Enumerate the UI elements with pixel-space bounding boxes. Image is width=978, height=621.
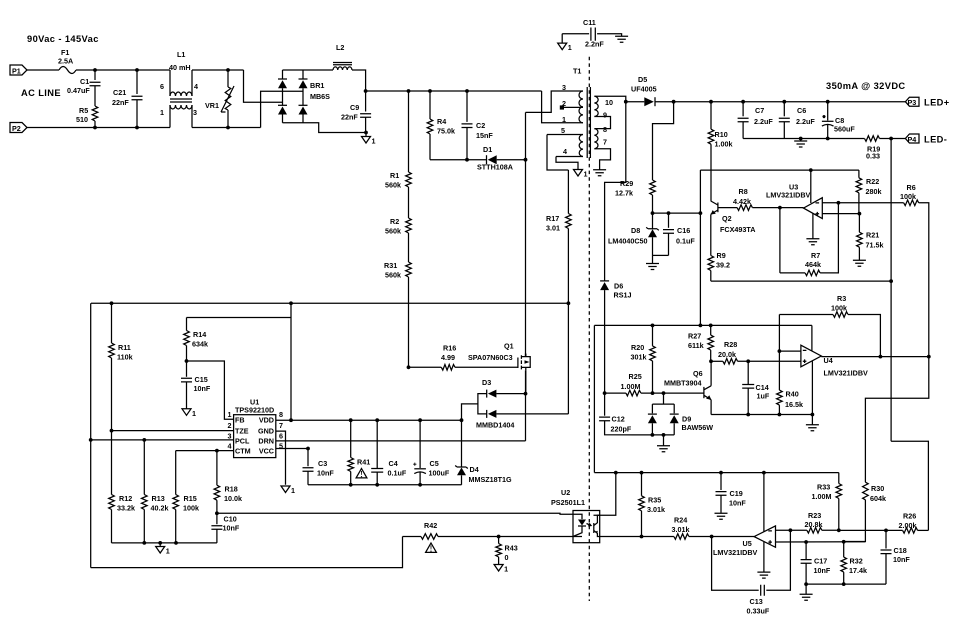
wire U4 vplus from rail: [811, 325, 813, 350]
warning triangle at R41: [356, 469, 367, 478]
resistor R11: [110, 301, 114, 305]
svg-text:22nF: 22nF: [341, 113, 358, 122]
resistor R33 zigzag: [836, 484, 842, 499]
wire pin5 loop to R17: [547, 135, 568, 171]
wire U5 gnd stub: [763, 542, 765, 572]
svg-text:C2: C2: [476, 121, 485, 130]
resistor R13: [142, 438, 146, 442]
capacitor C4: [375, 418, 379, 422]
svg-text:10nF: 10nF: [223, 524, 240, 533]
wire vcc rail lower: [594, 472, 838, 474]
diode BR1 top-left: [278, 78, 287, 80]
connector P4: [905, 134, 919, 143]
wire drain riser upper: [525, 112, 527, 159]
wire snubber bottom: [430, 159, 487, 161]
svg-text:464k: 464k: [805, 260, 821, 269]
svg-text:R23: R23: [808, 511, 821, 520]
capacitor C5 electrolytic: [418, 418, 422, 422]
wire vcc rail riser: [593, 325, 595, 472]
wire to R19: [828, 138, 865, 140]
wire U4 gnd stub: [811, 361, 813, 414]
wire L1 pin1 lead: [169, 105, 171, 128]
wire D3 bracket: [478, 394, 487, 414]
wire to C6: [783, 102, 785, 117]
resistor R14 zigzag: [184, 331, 190, 346]
svg-text:D1: D1: [483, 145, 492, 154]
wire opto emitter to R24: [600, 536, 674, 538]
svg-text:4: 4: [194, 82, 198, 91]
wire to C10: [216, 513, 218, 524]
svg-text:C13: C13: [750, 597, 763, 606]
wire R26 to minus line: [839, 529, 903, 531]
wire C2 to snubber line: [466, 128, 468, 160]
svg-text:R41: R41: [357, 458, 370, 467]
wire U3 rail: [700, 169, 859, 171]
wire aux line: [91, 302, 568, 304]
svg-text:12.7k: 12.7k: [615, 189, 633, 198]
svg-text:C6: C6: [797, 106, 806, 115]
svg-text:4.42k: 4.42k: [733, 197, 751, 206]
wire gnd bus U1 area: [112, 542, 217, 544]
wire rail to C19: [720, 473, 722, 490]
wire C7 to out bus: [742, 122, 744, 139]
earth ground at C11: [615, 36, 628, 42]
capacitor C2 plates: [462, 124, 473, 128]
wire left loop vertical: [90, 303, 92, 567]
svg-text:1.00M: 1.00M: [812, 492, 832, 501]
wire gnd bus C3 to D4: [308, 484, 462, 486]
svg-text:1: 1: [568, 43, 572, 52]
svg-text:R29: R29: [620, 179, 633, 188]
svg-text:FCX493TA: FCX493TA: [720, 225, 755, 234]
wire node to L1 pin6: [95, 69, 170, 71]
wire to C21: [136, 70, 138, 94]
wire FB node to FB pin: [187, 361, 234, 419]
wire to R14: [186, 318, 188, 331]
resistor R25 zigzag: [626, 390, 641, 396]
wire B+ rail: [366, 90, 542, 92]
diode D6 triangle: [600, 280, 609, 282]
wire gate node to R16: [409, 366, 442, 368]
svg-text:1.00M: 1.00M: [621, 382, 641, 391]
svg-text:P2: P2: [12, 124, 21, 133]
capacitor C2: [465, 89, 469, 93]
wire L1 to bridge ac1: [192, 69, 244, 71]
wire D1 to drain node: [497, 159, 526, 161]
earth ground at U3: [806, 239, 819, 245]
wire C12 to D9 bottom: [605, 421, 653, 435]
wire bridge left col top: [282, 70, 284, 79]
earth stem: [811, 415, 813, 425]
op-amp U5 LMV321IDBV: [754, 526, 775, 547]
svg-text:P3: P3: [908, 98, 917, 107]
svg-text:3.01k: 3.01k: [647, 505, 665, 514]
ground primary at U1 GND: [281, 486, 290, 493]
wire D3 tap to VDD: [462, 404, 478, 420]
svg-text:33.2k: 33.2k: [117, 504, 135, 513]
wire U3 gnd stub: [812, 214, 814, 239]
resistor R10: [709, 100, 713, 104]
TZE pin wire: [110, 429, 114, 433]
capacitor C4 plates: [371, 469, 383, 473]
wire bridge bottom to gnd node: [303, 123, 366, 133]
svg-text:10nF: 10nF: [729, 499, 746, 508]
wire bridge top rail: [283, 69, 304, 71]
resistor R18: [215, 449, 219, 453]
wire P2 to node: [27, 127, 95, 129]
wire bridge right col top: [302, 70, 304, 79]
wire to C12: [604, 393, 606, 416]
svg-text:VDD: VDD: [259, 415, 274, 424]
wire pin5: [547, 134, 583, 136]
svg-text:6: 6: [279, 431, 283, 440]
svg-text:2.2uF: 2.2uF: [796, 117, 815, 126]
wire R2 to R31: [408, 233, 410, 262]
svg-text:3: 3: [228, 431, 232, 440]
svg-text:R24: R24: [674, 516, 687, 525]
svg-text:C12: C12: [612, 415, 625, 424]
resistor R5: [92, 106, 98, 121]
capacitor C16 plates: [663, 230, 674, 234]
svg-text:1uF: 1uF: [757, 392, 770, 401]
earth ground at U4: [806, 425, 819, 431]
earth stem: [800, 139, 802, 142]
svg-text:20.8k: 20.8k: [805, 520, 823, 529]
wire base node to D9: [663, 393, 665, 404]
wire R41 to bus: [350, 472, 352, 485]
wire U4 output: [821, 356, 929, 358]
wire rail corner to R22: [858, 170, 860, 178]
diode D9 left: [648, 413, 657, 415]
resistor R12 zigzag: [109, 495, 115, 510]
svg-text:C10: C10: [224, 515, 237, 524]
svg-text:560k: 560k: [385, 271, 401, 280]
resistor R40 zigzag: [777, 390, 783, 405]
wire D9 left top: [651, 404, 653, 413]
wire rail corner to R33: [838, 473, 840, 484]
resistor R26 zigzag: [903, 528, 918, 534]
svg-text:1: 1: [504, 565, 508, 574]
svg-text:RS1J: RS1J: [614, 291, 632, 300]
svg-text:560k: 560k: [385, 181, 401, 190]
svg-text:611k: 611k: [688, 341, 704, 350]
svg-text:1: 1: [228, 410, 232, 419]
wire pin10 riser to D6: [605, 102, 626, 281]
wire R42 to R43 node: [438, 536, 499, 538]
wire C21 to bottom: [136, 100, 138, 128]
svg-text:8: 8: [603, 125, 607, 134]
wire U5 minus to R23: [776, 529, 807, 531]
svg-text:2.5A: 2.5A: [58, 57, 73, 66]
wire U5 gnd bus: [806, 583, 886, 585]
wire aux riser to VDD line: [290, 303, 292, 420]
wire pin4 stub: [556, 156, 583, 158]
svg-text:10nF: 10nF: [893, 555, 910, 564]
resistor R16 4.99: [441, 364, 455, 370]
svg-text:C16: C16: [677, 226, 690, 235]
wire Q6 collector: [710, 361, 712, 386]
wire rail to R20: [652, 325, 654, 346]
wire R6 to U4 output: [919, 203, 929, 357]
svg-text:6: 6: [160, 82, 164, 91]
svg-text:10.0k: 10.0k: [224, 494, 242, 503]
diode BR1 bottom-left: [278, 104, 287, 106]
wire Q6 emitter: [710, 400, 712, 415]
wire U5 plus line: [776, 541, 866, 543]
svg-text:R17: R17: [546, 214, 559, 223]
svg-text:T1: T1: [573, 67, 581, 76]
ground primary at R43: [494, 565, 503, 572]
resistor R29 zigzag: [650, 180, 656, 195]
op-amp U3 LMV321IDBV: [804, 198, 823, 219]
wire CTM: [176, 450, 234, 452]
wire ref node line: [653, 212, 701, 214]
wire plus node to R21: [858, 214, 860, 233]
wire R21 to earth: [858, 247, 860, 260]
resistor R28 zigzag: [723, 358, 738, 364]
svg-text:90Vac - 145Vac: 90Vac - 145Vac: [27, 34, 99, 44]
svg-text:R27: R27: [688, 332, 701, 341]
capacitor C21: [132, 96, 143, 100]
wire to R43: [498, 537, 500, 544]
wire to opto cathode: [499, 536, 573, 538]
svg-text:0.1uF: 0.1uF: [676, 237, 695, 246]
svg-text:PS2501L1: PS2501L1: [551, 498, 585, 507]
wire minus to R3: [778, 315, 780, 352]
resistor R17 zigzag: [566, 214, 572, 229]
connector P3: [905, 97, 919, 106]
wire GND pin to gnd: [276, 431, 286, 485]
svg-text:MMSZ18T1G: MMSZ18T1G: [469, 475, 513, 484]
wire VDD to C4: [376, 420, 378, 468]
svg-text:U4: U4: [824, 356, 833, 365]
wire bridge left col bottom: [282, 115, 284, 123]
svg-text:TPS92210D: TPS92210D: [235, 406, 274, 415]
svg-text:LED+: LED+: [924, 98, 950, 108]
resistor R7 zigzag: [805, 270, 820, 276]
wire R8 to U3 output: [752, 207, 803, 209]
capacitor C14 plates: [742, 385, 754, 389]
svg-text:C3: C3: [318, 459, 327, 468]
diode D1 STTH108A: [486, 155, 488, 164]
wire sense step to R26: [891, 441, 928, 530]
connector P1: [10, 65, 27, 75]
wire sense line: [711, 280, 891, 282]
wire R16 to Q1 gate: [455, 366, 518, 368]
wire D9 top bracket: [652, 403, 674, 405]
wire D9 bottom bracket: [652, 434, 674, 436]
wire to C18: [885, 530, 887, 548]
svg-text:1: 1: [166, 547, 170, 556]
capacitor C15 plates: [181, 378, 192, 382]
wire to R42: [403, 536, 422, 538]
svg-text:R16: R16: [443, 344, 456, 353]
wire CTM to R18: [216, 451, 218, 486]
wire R17 line down to D3: [567, 303, 569, 414]
gate node junction: [407, 365, 411, 369]
wire C5 to bus: [419, 472, 421, 485]
svg-text:R26: R26: [903, 512, 916, 521]
wire C8 to LED- line: [827, 125, 829, 139]
resistor R20 zigzag: [650, 346, 656, 361]
svg-text:R11: R11: [118, 343, 131, 352]
svg-text:15nF: 15nF: [476, 131, 493, 140]
svg-text:8: 8: [279, 410, 283, 419]
wire Q2 collector join: [710, 200, 712, 202]
wire R11 to TZE node: [111, 358, 113, 431]
wire TZE: [112, 430, 234, 432]
capacitor C8 electrolytic: [826, 100, 830, 104]
capacitor C10 plates: [211, 526, 222, 530]
resistor R1 zigzag: [406, 172, 412, 187]
resistor R24 zigzag: [674, 534, 689, 540]
svg-text:GND: GND: [258, 426, 274, 435]
earth ground at U5: [757, 572, 770, 578]
svg-text:R22: R22: [866, 177, 879, 186]
wire to R26: [918, 529, 929, 531]
wire C17 to gnd bus: [805, 563, 807, 584]
svg-text:R42: R42: [424, 521, 437, 530]
capacitor C3 plates: [303, 468, 314, 472]
svg-text:MB6S: MB6S: [310, 92, 330, 101]
svg-text:D4: D4: [470, 465, 479, 474]
resistor R11 zigzag: [109, 343, 115, 358]
wire R32 to gnd bus: [843, 572, 845, 584]
wire U3 vplus: [810, 170, 812, 203]
resistor R31: [406, 262, 412, 277]
wire plus to C17: [805, 542, 807, 560]
wire U3 plus line: [822, 213, 859, 215]
svg-text:C9: C9: [350, 103, 359, 112]
resistor R42 zigzag: [421, 534, 438, 540]
wire bridge to L2: [303, 69, 333, 71]
wire rail to opto collector: [594, 473, 616, 516]
svg-text:MMBT3904: MMBT3904: [664, 379, 702, 388]
wire R31 to gate node: [408, 277, 410, 367]
svg-text:D6: D6: [614, 282, 623, 291]
wire C3 to bus: [307, 471, 309, 485]
wire B+ to C2: [466, 91, 468, 122]
wire U3 minus line: [822, 202, 903, 204]
wire pin10 to D5: [626, 101, 645, 103]
svg-text:Q6: Q6: [693, 369, 703, 378]
wire R17 to aux node: [567, 229, 569, 304]
wire U4 gnd rail: [711, 414, 812, 416]
svg-text:LED-: LED-: [924, 135, 947, 145]
wire pin2 stub: [564, 106, 583, 108]
svg-text:R31: R31: [384, 261, 397, 270]
diode D9 right: [670, 413, 679, 415]
resistor R41: [349, 418, 353, 422]
svg-text:2: 2: [228, 421, 232, 430]
resistor R43 zigzag: [496, 544, 502, 557]
wire PCL: [91, 439, 234, 441]
wire plus to R32: [843, 542, 845, 557]
wire C9 to gnd node: [365, 118, 367, 133]
svg-text:R8: R8: [739, 187, 748, 196]
svg-text:1: 1: [584, 170, 588, 179]
svg-text:0.1uF: 0.1uF: [388, 469, 407, 478]
svg-text:220pF: 220pF: [611, 425, 632, 434]
wire LED- sense down: [890, 139, 892, 442]
wire R27 to R28 node: [710, 350, 712, 361]
wire L1 pin4 lead: [191, 70, 193, 96]
wire to C8: [827, 102, 829, 121]
wire R19 to P4: [880, 138, 906, 140]
svg-text:10nF: 10nF: [317, 469, 334, 478]
wire ref to rails riser: [699, 213, 701, 325]
svg-text:DRN: DRN: [258, 437, 274, 446]
resistor R35 zigzag: [639, 496, 645, 511]
svg-text:1: 1: [192, 409, 196, 418]
wire C11 right: [597, 34, 622, 37]
wire C16 to bottom: [668, 233, 670, 255]
wire D3 upper to source: [496, 393, 525, 395]
svg-text:0.47uF: 0.47uF: [67, 86, 90, 95]
wire R25 to Q6 base: [641, 392, 704, 394]
wire C13 loop left: [712, 537, 759, 591]
earth stem: [663, 435, 665, 446]
svg-text:C5: C5: [430, 459, 439, 468]
svg-text:AC LINE: AC LINE: [21, 88, 61, 98]
resistor R4 zigzag: [427, 119, 433, 134]
svg-text:TZE: TZE: [235, 426, 249, 435]
capacitor C13 plates: [761, 585, 765, 596]
wire Q1 drain stub: [525, 354, 527, 357]
svg-text:R25: R25: [629, 372, 642, 381]
wire F1 to node: [76, 69, 95, 71]
svg-text:R20: R20: [631, 343, 644, 352]
svg-text:R43: R43: [505, 544, 518, 553]
svg-text:40.2k: 40.2k: [151, 504, 169, 513]
wire Q2 base to R8: [718, 207, 737, 209]
resistor R18 zigzag: [214, 485, 220, 500]
svg-text:L1: L1: [177, 50, 185, 59]
wire left loop bottom to R42: [91, 537, 403, 568]
wire R40 to gnd rail: [778, 405, 780, 414]
svg-text:560uF: 560uF: [834, 125, 855, 134]
wire R1 to R2: [408, 187, 410, 218]
earth ground at C19: [715, 513, 728, 519]
svg-text:D5: D5: [638, 75, 647, 84]
svg-text:C15: C15: [195, 375, 208, 384]
svg-text:U2: U2: [561, 488, 570, 497]
resistor R25 line: [603, 391, 607, 395]
wire L2 to B+ corner: [352, 70, 366, 91]
svg-text:5: 5: [561, 126, 565, 135]
wire C10 to gnd bus: [216, 529, 218, 543]
svg-text:71.5k: 71.5k: [866, 241, 884, 250]
wire rail to R35: [641, 473, 643, 496]
resistor R9 zigzag: [708, 256, 714, 271]
wire to C1: [94, 70, 96, 80]
svg-text:FB: FB: [235, 415, 245, 424]
wire R18 node to opto anode: [217, 513, 573, 514]
wire R3 left: [779, 314, 833, 316]
wire C4 to bus: [376, 472, 378, 485]
wire R20 to R25 line: [652, 361, 654, 393]
wire riser to U3 rail: [699, 170, 701, 213]
capacitor C6: [782, 100, 786, 104]
wire output to R10: [710, 102, 712, 130]
ground primary at T1 pin4: [574, 170, 583, 177]
wire L1 pin3 lead: [191, 105, 193, 128]
svg-text:16.5k: 16.5k: [785, 400, 803, 409]
earth ground at output bus: [794, 141, 807, 147]
wire R14 to FB node: [186, 346, 188, 362]
ground primary at C9: [362, 137, 371, 144]
ground primary at U1 bus: [156, 547, 165, 554]
